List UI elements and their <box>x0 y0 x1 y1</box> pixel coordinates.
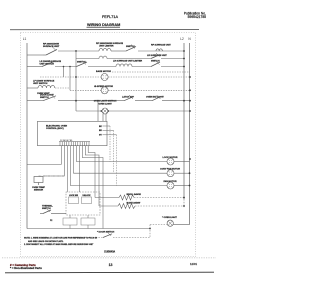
junction dot row1-L2 <box>183 50 185 52</box>
thermal switch <box>40 204 66 222</box>
switch S5 <box>77 61 88 67</box>
door lock lower contact boxes <box>63 215 95 229</box>
wire dashed riser <box>149 225 151 238</box>
notes text block <box>24 236 98 246</box>
ribbon wires from connector <box>43 146 103 229</box>
page number 13 <box>109 263 113 267</box>
switch S8 <box>152 95 161 101</box>
header model number FEFL71A <box>102 15 119 19</box>
motor M4 convection fan <box>73 170 190 177</box>
wire L2 bus lower dashed <box>183 199 185 208</box>
wire row 1b <box>76 58 184 60</box>
svg-text:L1: L1 <box>23 37 27 41</box>
svg-text:* DOOR SWITCH: * DOOR SWITCH <box>97 232 115 234</box>
svg-text:UNIT SWITCH: UNIT SWITCH <box>33 83 48 85</box>
switch S5b <box>151 61 160 67</box>
switch S1 surface switch <box>43 47 57 56</box>
EOC connector pins <box>60 142 89 146</box>
junction dot row5-V76 <box>75 100 77 102</box>
junction dot row6-N <box>189 110 191 112</box>
element coil E2b <box>116 64 132 67</box>
EOC electronic oven control box <box>38 121 108 145</box>
door lock assembly dashed box <box>66 192 100 215</box>
switch S7 <box>124 95 134 101</box>
svg-text:AND SEE LEADS ON RATING PLATE.: AND SEE LEADS ON RATING PLATE. <box>28 240 64 243</box>
junction dot row1b-L2 <box>183 58 185 60</box>
svg-text:OVEN LIGHT SWITCH: OVEN LIGHT SWITCH <box>94 100 117 102</box>
switch S3 <box>151 53 160 59</box>
svg-text:OVEN IND LIGHT: OVEN IND LIGHT <box>146 97 164 99</box>
svg-text:OVEN LIGHT: OVEN LIGHT <box>98 104 112 106</box>
svg-text:CONTROL (EOC): CONTROL (EOC) <box>46 128 64 130</box>
wires into EOC top <box>98 101 106 122</box>
element broil zigzag <box>95 195 134 200</box>
node L1 label <box>23 37 27 41</box>
wire row 1 right front surface unit <box>27 51 184 55</box>
svg-text:* = Non-Illustrated Parts: * = Non-Illustrated Parts <box>10 266 42 270</box>
label LR surface unit <box>40 60 62 65</box>
lamp L1 oven light <box>100 108 109 114</box>
label oven vent limiter <box>113 60 142 63</box>
label oven light <box>98 104 112 106</box>
lamp oven light lower <box>150 220 173 226</box>
motor M3 lock motor <box>76 158 191 165</box>
svg-text:13: 13 <box>109 263 113 267</box>
node L2 label <box>180 37 184 41</box>
junction dot V76 row3 <box>75 76 77 78</box>
wire dashed divider y72 <box>112 71 190 73</box>
label oven vent <box>37 93 50 95</box>
junction dot row2-V63 <box>63 66 65 68</box>
svg-text:LR SURFACE UNIT LIMITER: LR SURFACE UNIT LIMITER <box>113 60 142 63</box>
wire row 3 dashed motor row <box>40 76 190 78</box>
footer fastening parts <box>10 263 36 267</box>
svg-text:WIRING DIAGRAM: WIRING DIAGRAM <box>87 23 120 27</box>
wire bottom main <box>27 228 150 230</box>
junction dot row2-V70 <box>69 66 71 68</box>
node N label <box>188 37 191 41</box>
footer perforation dotted rule <box>2 257 216 259</box>
wire vertical V70 <box>69 67 71 91</box>
svg-text:FAN MOTOR: FAN MOTOR <box>163 180 177 183</box>
label RF surface unit <box>151 43 171 46</box>
wire broil row dashed <box>134 197 185 199</box>
heading WIRING DIAGRAM <box>87 23 121 27</box>
element bake zigzag <box>99 204 135 209</box>
motor M1 <box>101 74 108 81</box>
switch S2 <box>126 45 136 52</box>
wire row 2 <box>27 66 184 68</box>
wire dashed lower <box>66 237 150 239</box>
svg-text:SENSOR: SENSOR <box>34 189 44 191</box>
footer rule <box>5 271 214 274</box>
wire row 5 oven light circuit <box>27 100 190 102</box>
svg-text:BAKE MOTOR: BAKE MOTOR <box>96 70 111 73</box>
junction dot row5-L2 <box>183 100 185 102</box>
label hi-speed motor <box>94 86 113 88</box>
wire bake row dashed <box>135 205 185 207</box>
wire dash-dot sensor row <box>39 175 65 177</box>
oven temperature sensor <box>32 177 45 192</box>
svg-text:SURFACE UNIT: SURFACE UNIT <box>43 45 60 48</box>
switch S4 <box>42 60 54 67</box>
svg-text:5995421785: 5995421785 <box>188 15 207 19</box>
switch S9 door switch <box>103 232 112 237</box>
drawing reference <box>104 251 115 254</box>
label oven ind light <box>146 97 164 99</box>
label row2 switch <box>151 61 160 63</box>
label oven light lower <box>162 217 177 219</box>
EOC terminal stubs right <box>99 126 117 137</box>
element coil E1 <box>99 48 111 51</box>
diagram border <box>21 33 196 257</box>
label latch switch <box>122 96 134 99</box>
svg-text:UNIT LIMITER: UNIT LIMITER <box>99 46 114 48</box>
switch S6 <box>43 94 56 100</box>
svg-text:BAKE 2350W: BAKE 2350W <box>127 202 142 205</box>
svg-text:* OVEN LIGHT: * OVEN LIGHT <box>162 217 177 219</box>
label switch 2 <box>77 62 86 64</box>
svg-text:RF SURFACE UNIT: RF SURFACE UNIT <box>151 43 171 46</box>
header publication number <box>184 11 206 19</box>
motor M5 cooling fan <box>70 182 190 189</box>
svg-text:2. DISCONNECT ALL POWER AT MAI: 2. DISCONNECT ALL POWER AT MAIN PANEL BE… <box>24 243 94 246</box>
label door switch <box>40 95 54 99</box>
svg-text:UNLOCK: UNLOCK <box>82 195 91 197</box>
label broil element <box>127 193 142 196</box>
label cooling fan motor <box>163 180 177 183</box>
label lock motor <box>163 157 178 159</box>
svg-text:CU/5643A: CU/5643A <box>104 251 115 254</box>
junction dot row5-N <box>189 100 191 102</box>
label dual element <box>96 42 124 47</box>
wire dashed verticals to motor rows <box>110 126 117 186</box>
wire N bus <box>173 43 189 225</box>
header rule <box>10 29 199 31</box>
svg-text:NOTE: 1. WIRE NUMBERS AT A DET: NOTE: 1. WIRE NUMBERS AT A DETOUR ARE FO… <box>24 236 98 239</box>
wire L1 bus <box>26 43 28 229</box>
label RF surface unit switch <box>43 44 60 49</box>
wire vertical V76 <box>75 51 77 111</box>
label door switch bottom <box>97 232 115 234</box>
svg-text:LOCK SW: LOCK SW <box>69 195 78 197</box>
svg-text:CONV FAN MOTOR: CONV FAN MOTOR <box>160 168 180 171</box>
wire row 6 oven lamp <box>76 110 190 112</box>
label LF surface unit <box>33 80 55 85</box>
junction dot bottom main <box>149 228 151 230</box>
element coil E3 <box>38 85 55 88</box>
svg-text:FEFL71A: FEFL71A <box>102 15 119 19</box>
svg-text:P2: P2 <box>50 220 52 222</box>
motor M2 <box>101 87 108 94</box>
junction dot row1-V76 <box>75 50 77 52</box>
junction dot row3-N <box>189 76 191 78</box>
label convection fan motor <box>160 168 180 171</box>
wire row L1 to ribbon <box>27 164 61 166</box>
junction dot row2-L2 <box>183 66 185 68</box>
element thermal RF <box>156 49 162 51</box>
svg-text:L2: L2 <box>180 37 184 41</box>
wire vertical V63 <box>63 67 65 78</box>
svg-text:1 2 3 4 5 6 7 8 9: 1 2 3 4 5 6 7 8 9 <box>60 139 72 142</box>
wire L2 bus <box>183 43 185 199</box>
label warmer coil <box>147 54 167 57</box>
svg-text:12/01: 12/01 <box>190 262 197 266</box>
EOC pin row underline <box>59 139 90 142</box>
label bake element <box>127 202 142 205</box>
label bake motor <box>96 70 111 73</box>
wire row 4 left coils <box>27 88 190 90</box>
junction dot row4-N <box>189 89 191 91</box>
element coil E2 <box>99 56 107 58</box>
footer date <box>190 262 197 266</box>
label oven light switch <box>94 100 117 102</box>
footer non-illustrated parts <box>10 266 42 270</box>
